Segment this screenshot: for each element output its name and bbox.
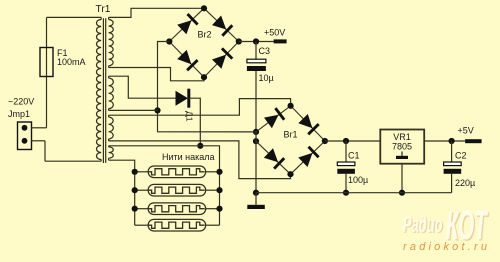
svg-text:Нити накала: Нити накала — [162, 152, 215, 162]
svg-text:radiokot.ru: radiokot.ru — [403, 241, 487, 253]
svg-text:C3: C3 — [259, 46, 271, 56]
svg-text:10µ: 10µ — [259, 73, 274, 83]
svg-text:7805: 7805 — [392, 142, 412, 152]
svg-text:100mA: 100mA — [57, 57, 86, 67]
svg-text:220µ: 220µ — [455, 178, 475, 188]
svg-text:100µ: 100µ — [348, 175, 368, 185]
svg-text:+5V: +5V — [458, 126, 474, 136]
svg-text:Tr1: Tr1 — [96, 4, 111, 15]
svg-text:+50V: +50V — [264, 27, 285, 37]
svg-text:C1: C1 — [348, 150, 360, 160]
svg-text:Br2: Br2 — [198, 29, 212, 39]
svg-text:Br1: Br1 — [284, 129, 298, 139]
svg-text:~220V: ~220V — [8, 97, 34, 107]
svg-text:Радио: Радио — [403, 213, 443, 237]
svg-text:C2: C2 — [455, 150, 467, 160]
svg-text:Jmp1: Jmp1 — [8, 109, 30, 119]
svg-text:Д1: Д1 — [185, 111, 195, 122]
